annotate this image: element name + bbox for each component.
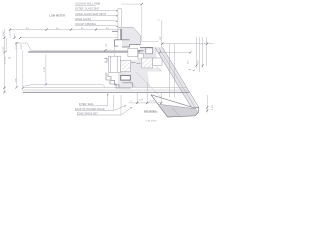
svg-text:2": 2" (131, 101, 133, 103)
dark step left of mullion (112, 30, 118, 32)
mullion dark bar (120, 29, 122, 40)
top dimension line EQ (10, 29, 121, 38)
bottom center dimensions (108, 82, 162, 115)
svg-text:1/2": 1/2" (106, 43, 108, 47)
bottom note text block (75, 103, 105, 115)
svg-text:3 1/4": 3 1/4" (3, 31, 5, 37)
svg-text:5 1/2": 5 1/2" (3, 46, 5, 52)
top band (head extrusion) (15, 38, 153, 50)
band inner line (31, 49, 153, 51)
note underlines and leaders (75, 5, 118, 26)
gasket hatch (121, 59, 152, 72)
vertical glass / extension lines between bands (17, 43, 46, 88)
left vertical dimension line (4, 29, 6, 93)
gray diagonal band fill (155, 47, 199, 109)
note text block top (75, 3, 106, 26)
svg-text:1 1/2: 1 1/2 (21, 44, 23, 50)
svg-text:1'-0 1/2": 1'-0 1/2" (5, 56, 7, 64)
left rotated dim texts (3, 31, 108, 82)
svg-text:2": 2" (158, 20, 160, 22)
bottom band (sill) (23, 84, 188, 90)
svg-text:5/8": 5/8" (160, 36, 162, 40)
hatch lines (120, 58, 195, 117)
svg-text:1/2": 1/2" (198, 60, 200, 64)
svg-text:EQ.: EQ. (8, 58, 12, 60)
svg-text:1 1/2: 1 1/2 (212, 104, 214, 110)
right top dimension line (160, 20, 214, 98)
leader arrowheads (116, 10, 118, 27)
gray poche C (frame body) (118, 72, 150, 88)
band seat notch (146, 48, 153, 54)
blade (sloped member bottom right) (151, 95, 199, 117)
ticks on band (13, 37, 106, 90)
band bottom dark line (28, 51, 153, 53)
top of band step (122, 4, 159, 41)
band top edge (20, 37, 118, 39)
mullion column at leaders target (118, 9, 122, 40)
hatch through blade (172, 108, 181, 117)
svg-text:1/2": 1/2" (187, 60, 189, 64)
band seat dark lines (130, 47, 153, 50)
gray poche between gaskets (130, 60, 141, 71)
right blade dimension (206, 95, 208, 113)
gray poly A (mullion cap) (118, 27, 140, 47)
glazing pocket small boxes center (108, 49, 162, 73)
svg-text:LOW METER: LOW METER (49, 15, 65, 18)
left ledge (15, 43, 31, 50)
diagonal edges (155, 47, 199, 108)
svg-text:5 7/8 (TYP.): 5 7/8 (TYP.) (146, 120, 157, 122)
